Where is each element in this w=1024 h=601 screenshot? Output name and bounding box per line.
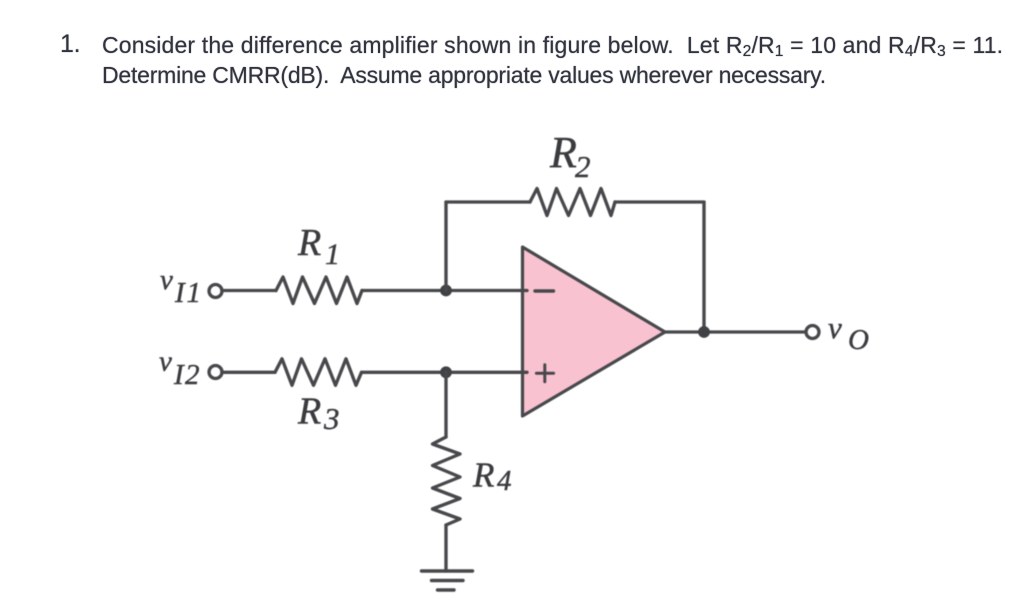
svg-text:2: 2 [575, 149, 591, 184]
wire stub non-inverting pin [521, 371, 527, 374]
wire vI1 to R1 [222, 289, 276, 292]
wire R1 to op-amp inverting input [362, 289, 522, 292]
wire R4 to ground [444, 525, 447, 571]
svg-text:v: v [828, 310, 842, 345]
resistor R1 [276, 277, 362, 304]
label R2 [549, 128, 591, 184]
svg-text:4: 4 [497, 465, 512, 497]
resistor R2 [530, 189, 615, 216]
op-amp minus pin mark [535, 289, 554, 292]
wire top left to R2 [446, 200, 530, 203]
wire feedback vertical up [444, 202, 447, 291]
terminal vI2 [209, 366, 222, 379]
label vI2 [159, 346, 200, 392]
label R1 [297, 222, 340, 271]
label vO [828, 310, 869, 356]
ground [422, 571, 473, 590]
svg-text:I: I [174, 277, 186, 309]
resistor R4 [433, 437, 461, 525]
label vI1 [160, 264, 201, 309]
problem statement text [60, 30, 80, 59]
svg-text:v: v [159, 346, 172, 378]
label R3 [297, 391, 340, 437]
svg-text:2: 2 [185, 359, 200, 391]
label R4 [472, 456, 512, 498]
svg-text:R: R [297, 391, 321, 433]
wire R3 to op-amp non-inverting input [362, 371, 523, 374]
wire node B down to R4 [444, 372, 447, 437]
svg-text:R: R [549, 128, 577, 177]
svg-text:R: R [472, 456, 494, 495]
wire vI2 to R3 [222, 371, 275, 374]
wire R2 to right vertical [615, 200, 704, 203]
svg-text:I: I [173, 359, 185, 391]
terminal vI1 [209, 285, 222, 298]
node B junction dot (non-inverting input) [440, 366, 452, 378]
svg-text:3: 3 [323, 401, 340, 436]
wire stub inverting pin [521, 289, 527, 292]
resistor R3 [275, 359, 362, 386]
wire op-amp output [665, 330, 806, 333]
svg-text:1: 1 [187, 277, 202, 309]
op-amp U1 [523, 247, 666, 416]
svg-text:R: R [297, 222, 321, 264]
svg-text:v: v [160, 264, 173, 296]
svg-text:1: 1 [325, 238, 340, 271]
wire right vertical down to output [702, 202, 705, 332]
node vO junction dot [698, 326, 710, 338]
svg-text:O: O [848, 324, 869, 356]
node A junction dot (inverting input) [440, 285, 452, 297]
terminal vO [806, 326, 819, 339]
op-amp plus pin mark [536, 365, 553, 382]
